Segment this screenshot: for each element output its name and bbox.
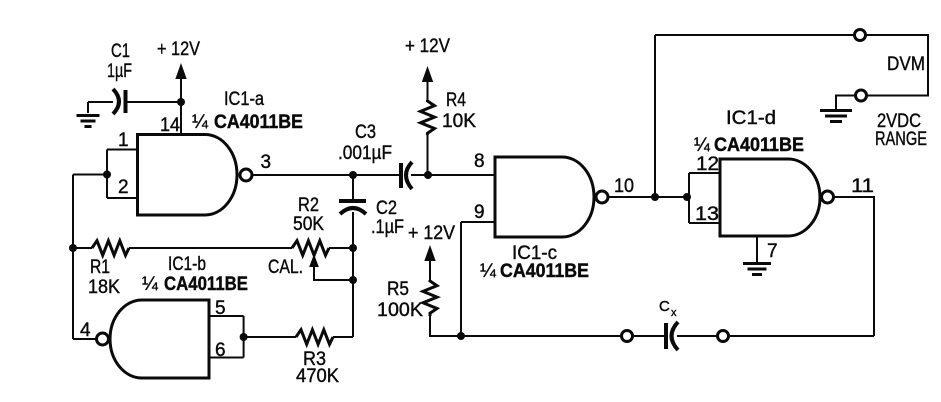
wire tie to left rail [73, 174, 107, 176]
svg-text:C3: C3 [355, 122, 376, 143]
label 2VDC RANGE [875, 111, 927, 150]
+12V supply arrow (R4) [405, 36, 450, 101]
IC1-d output bubble [822, 191, 834, 203]
resistor R5 [423, 280, 437, 316]
node C3/R4/pin8 [424, 171, 432, 179]
NAND gate IC1-a [138, 135, 238, 216]
svg-text:IC1-b: IC1-b [168, 254, 206, 275]
wire pin 8 [428, 174, 495, 176]
svg-text:IC1-a: IC1-a [224, 89, 264, 110]
svg-text:¼: ¼ [142, 274, 159, 295]
wire node to C2 top [352, 175, 354, 199]
svg-text:14: 14 [160, 115, 180, 136]
label C3 value [338, 122, 392, 164]
svg-text:1: 1 [118, 130, 129, 151]
wire between R1 and R2 [129, 247, 292, 249]
svg-text:R1: R1 [90, 257, 110, 278]
svg-text:100K: 100K [377, 300, 423, 321]
NAND gate IC1-c [495, 157, 594, 237]
svg-text:2: 2 [118, 177, 129, 198]
+12V supply arrow (R5) [408, 223, 455, 281]
wire C3 to R4 node [411, 174, 428, 176]
ground (pin 7) [743, 264, 771, 275]
svg-text:.1µF: .1µF [371, 217, 404, 238]
svg-text:CA4011BE: CA4011BE [500, 261, 589, 282]
svg-text:¼: ¼ [192, 112, 209, 133]
terminal (Cx right) [718, 331, 729, 342]
wire DVM terminal loop [867, 35, 929, 96]
svg-text:3: 3 [261, 152, 272, 173]
wire input bracket IC1-b [243, 316, 245, 358]
svg-text:CA4011BE: CA4011BE [714, 135, 804, 156]
label C2 value [371, 198, 404, 238]
svg-text:x: x [671, 307, 677, 319]
wire input bracket IC1-d [688, 173, 690, 223]
node pin3 / C3 / C2 junction [349, 171, 357, 179]
wire pin 4 [73, 338, 97, 340]
svg-text:.001µF: .001µF [338, 143, 392, 164]
svg-text:+ 12V: + 12V [157, 39, 200, 60]
wire pin 5 stub [209, 315, 244, 317]
label R3 value [296, 349, 339, 387]
wire R1-R2 rail with resistors [73, 247, 92, 249]
svg-text:11: 11 [851, 176, 874, 197]
capacitor C3 [401, 162, 412, 189]
op-amp/gate IC1-b label [142, 254, 248, 295]
terminal (Cx left) [622, 331, 633, 342]
svg-text:R5: R5 [387, 279, 409, 300]
resistor R2 (CAL trimmer) [292, 241, 329, 256]
node pins 5-6 tie [240, 333, 248, 341]
svg-text:R4: R4 [446, 90, 466, 111]
op-amp/gate IC1-a label [192, 89, 303, 133]
wire pin 3 output [252, 174, 354, 176]
svg-text:+ 12V: + 12V [405, 36, 450, 57]
terminal (DVM -) [856, 90, 867, 101]
svg-text:10: 10 [614, 176, 634, 197]
svg-text:8: 8 [474, 151, 485, 172]
resistor R4 [421, 100, 435, 135]
svg-text:12: 12 [696, 154, 719, 175]
wire pin 14 [180, 102, 182, 134]
terminal (DVM +) [855, 30, 866, 41]
node pins 1-2 tie [103, 171, 111, 179]
svg-text:470K: 470K [296, 366, 339, 387]
wire R3 to vertical rail corner [333, 336, 353, 338]
wire terminal to pin 11 rail [730, 335, 875, 337]
ground (C1 left) [77, 102, 100, 127]
svg-text:+ 12V: + 12V [408, 223, 455, 244]
svg-text:RANGE: RANGE [875, 129, 927, 150]
capacitor C2 [339, 201, 366, 214]
svg-text:18K: 18K [88, 277, 120, 298]
wire pin 2 stub [107, 197, 138, 199]
NAND gate IC1-b (mirrored) [110, 300, 209, 378]
resistor R3 [296, 330, 333, 345]
svg-text:4: 4 [80, 320, 91, 341]
capacitor Cx [666, 322, 678, 350]
wire pin 9 vertical [460, 222, 462, 336]
svg-text:C: C [659, 298, 670, 315]
svg-text:10K: 10K [442, 111, 476, 132]
wire node to C3 [353, 174, 399, 176]
svg-text:13: 13 [695, 204, 719, 225]
wire tie to R3 [244, 336, 296, 338]
node +12V junction [177, 98, 185, 106]
svg-text:C1: C1 [111, 41, 130, 62]
svg-text:DVM: DVM [887, 54, 925, 75]
svg-text:1µF: 1µF [107, 61, 132, 82]
svg-text:CAL.: CAL. [268, 257, 303, 278]
node left rail / R1 [69, 244, 77, 252]
wire C1 to +12V node [127, 101, 181, 103]
capacitor C1 [113, 89, 126, 114]
wire input bracket IC1-a [106, 150, 108, 199]
wire R2 to vertical rail [329, 247, 353, 249]
svg-text:R2: R2 [298, 195, 319, 216]
op-amp/gate IC1-d label [694, 108, 804, 156]
label Cx [659, 298, 677, 319]
wire pin 11 [833, 197, 875, 336]
wire pin 13 stub [689, 222, 720, 224]
svg-text:9: 9 [474, 202, 485, 223]
node DVM branch [651, 193, 659, 201]
svg-text:¼: ¼ [694, 135, 711, 156]
svg-text:CA4011BE: CA4011BE [214, 112, 303, 133]
wire R4 to node [427, 134, 429, 175]
wire terminal to ground [836, 96, 855, 110]
node R5 / pin9 rail [457, 332, 465, 340]
node R2 right [349, 244, 357, 252]
+12V supply arrow (left) [157, 39, 200, 102]
wire Cx to terminal [677, 335, 717, 337]
wire pin 7 [756, 236, 758, 262]
svg-text:50K: 50K [293, 214, 324, 235]
wire ground to C1 [88, 101, 113, 103]
svg-text:C2: C2 [376, 198, 397, 219]
node pins 12-13 tie [683, 193, 691, 201]
label R2 value [293, 195, 324, 235]
wire pin 1 stub [107, 149, 138, 151]
label R4 value [442, 90, 476, 132]
IC1-a output bubble [240, 169, 252, 181]
wire C2 bottom to R3 corner [352, 212, 354, 337]
IC1-c output bubble [596, 191, 608, 203]
svg-text:¼: ¼ [480, 261, 497, 282]
wire vertical to DVM [654, 35, 656, 197]
label R1 value [88, 257, 120, 298]
ground (DVM) [820, 111, 852, 122]
label C1 value [107, 41, 132, 82]
wire R5 bottom corner [430, 315, 461, 336]
wire left rail vertical [72, 175, 74, 340]
svg-text:IC1-d: IC1-d [726, 108, 776, 129]
wire pin 6 stub [209, 357, 244, 359]
op-amp/gate IC1-c label [480, 243, 589, 282]
resistor R1 [92, 241, 129, 256]
wire top to DVM terminal [655, 34, 854, 36]
NAND gate IC1-d [720, 159, 820, 236]
svg-text:CA4011BE: CA4011BE [164, 274, 248, 295]
wire pin 10 output [607, 196, 689, 198]
IC1-b output bubble [97, 333, 109, 345]
CAL wiper arrow [268, 254, 353, 280]
wire terminal to Cx [634, 335, 665, 337]
label R5 value [377, 279, 423, 321]
wire pin 12 stub [689, 172, 720, 174]
wire Cx rail left [461, 335, 621, 337]
node wiper junction [349, 276, 357, 284]
wire pin 9 [461, 221, 495, 223]
svg-text:7: 7 [767, 241, 778, 262]
